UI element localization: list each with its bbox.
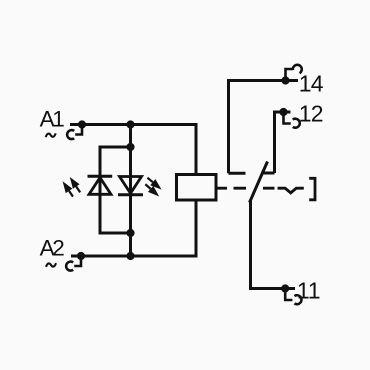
- junction dot LED branch top: [126, 143, 134, 151]
- wire 12 branch: [275, 112, 291, 173]
- terminal 12 clamp: [279, 108, 299, 128]
- relay coil K1: [177, 175, 217, 201]
- wire LED left branch: [100, 147, 131, 233]
- AC symbol ~ (A1): [46, 133, 56, 137]
- contact lever (movable contact from 11): [250, 162, 268, 203]
- junction dot A2 rail x LED rail: [126, 252, 134, 260]
- LED D2 (right, cathode down): [118, 177, 143, 195]
- mechanical link dashed line with chevron: [217, 188, 304, 193]
- svg-text:A1: A1: [40, 107, 65, 132]
- junction dot A1 rail x LED rail: [126, 120, 134, 128]
- svg-text:11: 11: [297, 278, 320, 304]
- wire A2 rail to coil bottom: [71, 199, 196, 256]
- fixed contact 12 foot: [261, 172, 275, 175]
- terminal 14 clamp: [281, 65, 301, 85]
- wire mid LED rail vertical: [129, 125, 132, 257]
- AC symbol ~ (A2): [46, 263, 56, 267]
- svg-text:14: 14: [299, 71, 324, 97]
- terminal A1 clamp: [67, 120, 86, 139]
- svg-text:A2: A2: [40, 236, 65, 261]
- terminal A2 clamp: [66, 252, 85, 271]
- fixed contact 14 foot: [229, 172, 246, 175]
- LED D1 light arrows (pointing up-left): [63, 177, 81, 197]
- terminal 11 clamp: [281, 284, 301, 304]
- wire A1 rail to coil top: [70, 125, 196, 177]
- wire 14 branch: [229, 81, 299, 174]
- svg-text:12: 12: [299, 101, 323, 127]
- LED D1 (left, cathode up): [88, 176, 113, 194]
- junction dot LED branch bottom: [126, 229, 134, 237]
- LED D2 light arrows (pointing down-right): [145, 178, 161, 197]
- actuator bracket: [309, 178, 315, 200]
- wire 11 branch: [251, 201, 296, 289]
